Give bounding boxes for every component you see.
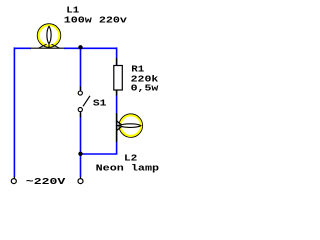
- svg-text:S1: S1: [93, 98, 107, 109]
- lamp L1 black lead segment: [31, 47, 65, 49]
- lamp L1 body: [37, 24, 60, 48]
- resistor R1 leads: [116, 58, 118, 96]
- svg-text:100w 220v: 100w 220v: [64, 15, 128, 26]
- wire switch column: [80, 48, 82, 90]
- neon lamp L2 black lead segment: [116, 113, 118, 142]
- wire left vertical: [13, 47, 15, 177]
- terminal right (source): [78, 177, 83, 184]
- svg-text:~220V: ~220V: [26, 177, 66, 188]
- svg-text:0,5w: 0,5w: [131, 83, 159, 94]
- wire switch to bottom terminal: [80, 113, 82, 177]
- terminal left (source): [11, 177, 16, 184]
- node junction dot top: [78, 45, 82, 49]
- neon lamp L2 body: [117, 114, 143, 137]
- switch S1: [78, 87, 90, 118]
- node junction dot bottom: [78, 152, 82, 156]
- svg-text:Neon lamp: Neon lamp: [96, 163, 160, 174]
- wire right vertical (R1/L2 branch): [81, 47, 117, 154]
- wire top horizontal rail: [14, 47, 31, 49]
- resistor R1 body: [114, 66, 123, 91]
